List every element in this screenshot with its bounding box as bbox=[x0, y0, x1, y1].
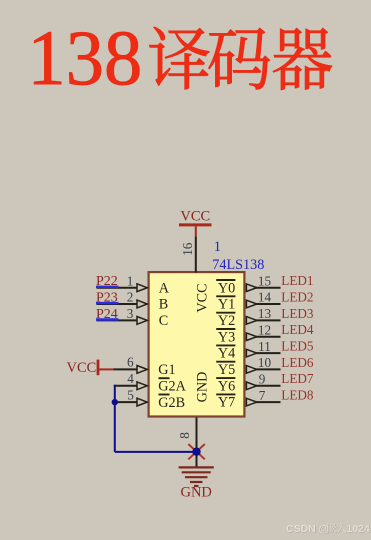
svg-text:G2B: G2B bbox=[158, 395, 185, 411]
svg-text:3: 3 bbox=[127, 306, 134, 321]
svg-text:15: 15 bbox=[258, 273, 272, 288]
svg-text:GND: GND bbox=[194, 372, 210, 403]
svg-text:LED6: LED6 bbox=[281, 355, 314, 370]
svg-text:LED1: LED1 bbox=[281, 273, 313, 288]
svg-text:138: 138 bbox=[28, 14, 143, 101]
svg-text:P24: P24 bbox=[96, 307, 118, 322]
svg-text:LED5: LED5 bbox=[281, 339, 314, 354]
svg-text:12: 12 bbox=[258, 322, 271, 337]
svg-text:Y5: Y5 bbox=[218, 362, 235, 378]
svg-text:11: 11 bbox=[258, 339, 271, 354]
svg-text:CSDN @: CSDN @ bbox=[286, 523, 329, 535]
svg-text:Y1: Y1 bbox=[218, 297, 235, 313]
svg-text:6: 6 bbox=[127, 355, 134, 370]
svg-text:4: 4 bbox=[127, 371, 134, 386]
svg-text:1024: 1024 bbox=[347, 523, 371, 535]
svg-text:P23: P23 bbox=[96, 290, 118, 305]
svg-text:1: 1 bbox=[214, 239, 221, 255]
svg-text:Y0: Y0 bbox=[218, 280, 235, 296]
svg-text:VCC: VCC bbox=[180, 209, 210, 225]
svg-text:1: 1 bbox=[127, 273, 134, 288]
svg-text:GND: GND bbox=[180, 484, 211, 500]
svg-text:VCC: VCC bbox=[67, 360, 97, 376]
svg-text:A: A bbox=[159, 280, 170, 296]
svg-text:10: 10 bbox=[258, 355, 272, 370]
svg-text:Y4: Y4 bbox=[218, 346, 235, 362]
svg-text:LED3: LED3 bbox=[281, 306, 314, 321]
svg-text:C: C bbox=[159, 313, 168, 329]
svg-text:G2A: G2A bbox=[158, 379, 186, 395]
svg-text:74LS138: 74LS138 bbox=[212, 257, 264, 273]
svg-text:8: 8 bbox=[177, 432, 192, 439]
svg-text:14: 14 bbox=[258, 290, 272, 305]
svg-text:LED2: LED2 bbox=[281, 289, 313, 304]
svg-text:7: 7 bbox=[259, 388, 266, 403]
svg-text:Y2: Y2 bbox=[218, 313, 235, 329]
svg-text:2: 2 bbox=[127, 290, 134, 305]
svg-text:VCC: VCC bbox=[194, 283, 210, 312]
svg-text:LED7: LED7 bbox=[281, 371, 314, 386]
svg-text:Y7: Y7 bbox=[218, 395, 235, 411]
svg-text:LED4: LED4 bbox=[281, 322, 314, 337]
svg-text:Y6: Y6 bbox=[218, 378, 235, 394]
svg-text:16: 16 bbox=[180, 242, 195, 256]
svg-text:5: 5 bbox=[127, 387, 134, 402]
svg-text:G1: G1 bbox=[158, 362, 175, 378]
svg-text:B: B bbox=[159, 297, 168, 313]
svg-text:LED8: LED8 bbox=[281, 388, 314, 403]
svg-text:P22: P22 bbox=[96, 274, 118, 289]
svg-text:9: 9 bbox=[259, 372, 266, 387]
svg-text:13: 13 bbox=[258, 306, 272, 321]
svg-text:Y3: Y3 bbox=[218, 329, 235, 345]
